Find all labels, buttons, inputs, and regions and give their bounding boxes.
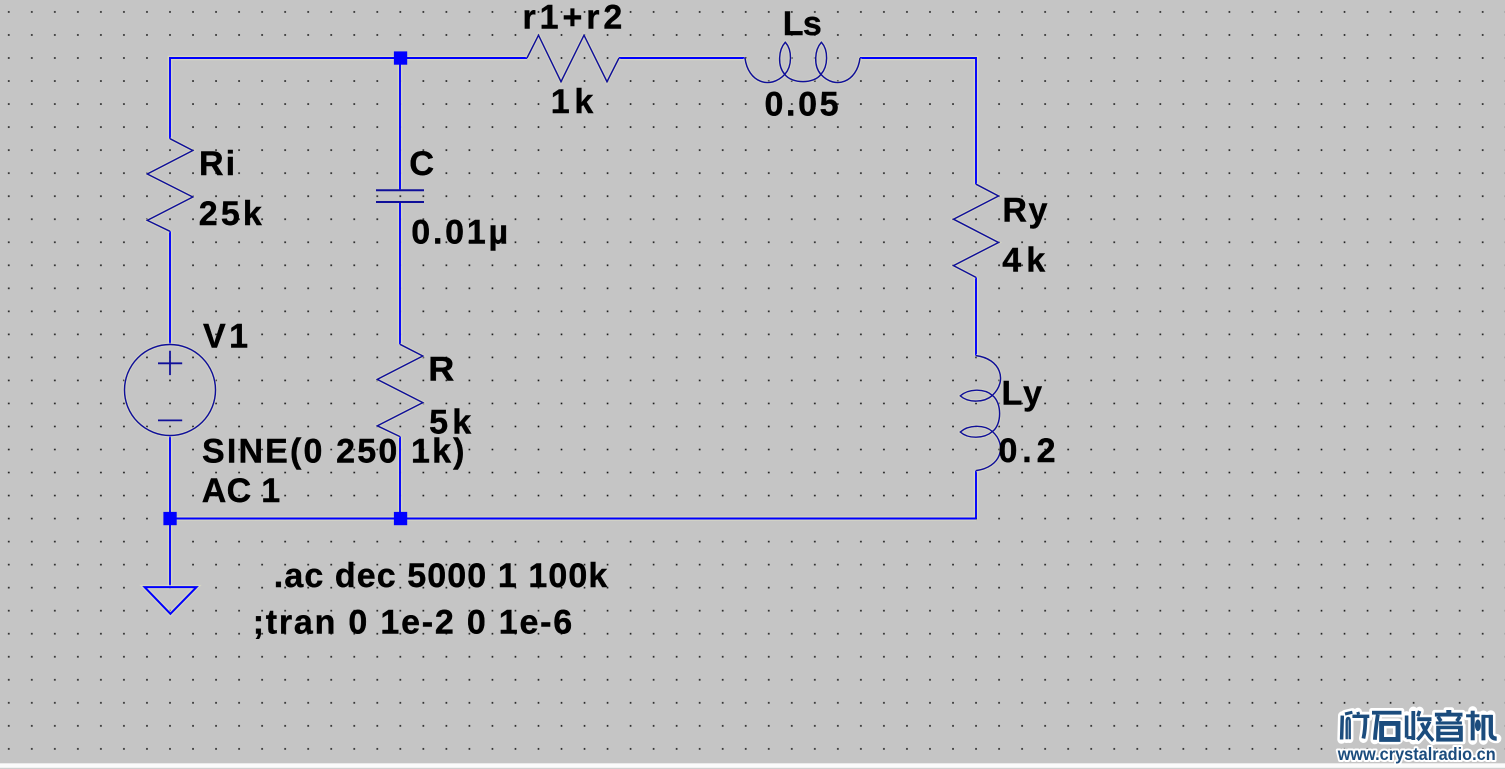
svg-text:;tran 0 1e-2 0 1e-6: ;tran 0 1e-2 0 1e-6 bbox=[253, 604, 573, 642]
node B (bottom-left junction) bbox=[163, 512, 176, 525]
svg-text:Ls: Ls bbox=[783, 5, 822, 43]
svg-text:Ry: Ry bbox=[1002, 191, 1047, 229]
svg-text:0.01µ: 0.01µ bbox=[411, 214, 508, 252]
svg-text:R: R bbox=[428, 351, 454, 389]
svg-text:Ri: Ri bbox=[199, 145, 235, 183]
svg-text:C: C bbox=[409, 145, 434, 183]
svg-text:0.2: 0.2 bbox=[999, 432, 1056, 470]
svg-text:25k: 25k bbox=[199, 195, 262, 233]
svg-text:www.crystalradio.cn: www.crystalradio.cn bbox=[1337, 744, 1496, 764]
bottom white strip bbox=[0, 763, 1505, 769]
node A (top junction) bbox=[394, 51, 407, 64]
svg-text:0.05: 0.05 bbox=[765, 86, 839, 124]
svg-text:AC 1: AC 1 bbox=[202, 472, 281, 510]
svg-text:V1: V1 bbox=[203, 317, 248, 355]
ground bbox=[145, 587, 197, 614]
svg-text:.ac dec 5000 1 100k: .ac dec 5000 1 100k bbox=[274, 557, 608, 595]
svg-text:SINE(0 250 1k): SINE(0 250 1k) bbox=[202, 433, 465, 471]
node C (bottom-middle junction) bbox=[394, 512, 407, 525]
watermark logo bbox=[1337, 707, 1497, 764]
